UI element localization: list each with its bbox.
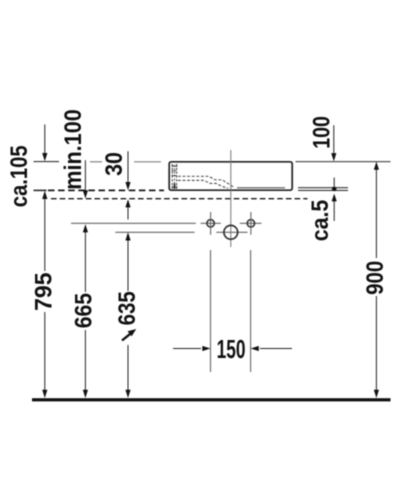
tap hole centerline A <box>71 222 196 224</box>
rim top reference line <box>34 161 391 163</box>
svg-text:ca.105: ca.105 <box>5 145 32 207</box>
635 leader arrow <box>122 333 131 340</box>
dim 635 line <box>127 240 129 391</box>
mounting level dashed line <box>34 189 165 191</box>
dim ca.105 upper arrow <box>44 125 46 155</box>
drain centerline B <box>115 231 194 233</box>
basin side view <box>169 162 292 190</box>
svg-text:ca.5: ca.5 <box>306 199 334 241</box>
svg-text:min.100: min.100 <box>59 109 87 189</box>
ca.5 dot <box>332 187 337 192</box>
floor line <box>32 398 391 401</box>
dimension labels <box>5 109 388 363</box>
drain hole <box>224 225 238 239</box>
wall dashed line <box>51 198 308 200</box>
dim 665 line <box>84 232 86 391</box>
centerline <box>230 150 232 247</box>
tap hole right <box>247 212 254 235</box>
dim 150 extension lines <box>210 250 212 372</box>
dim 795 line <box>44 199 46 391</box>
svg-text:795: 795 <box>30 273 58 311</box>
basin inner bottom line <box>237 187 285 189</box>
dim min.100 line <box>84 160 86 191</box>
dim 30 arrows <box>127 151 129 182</box>
dim 900 line <box>375 170 377 391</box>
svg-text:100: 100 <box>307 116 335 149</box>
ca.5 gap lines <box>298 188 348 191</box>
basin hidden lines <box>172 164 235 189</box>
tap hole left <box>207 212 214 235</box>
ca.5 arrows <box>333 178 335 222</box>
svg-text:30: 30 <box>99 152 127 176</box>
dim 100 arrow <box>333 125 335 154</box>
svg-text:665: 665 <box>69 293 97 329</box>
svg-text:150: 150 <box>217 334 246 363</box>
svg-text:635: 635 <box>113 291 140 325</box>
dim 150 arrows <box>173 348 201 350</box>
svg-text:900: 900 <box>361 261 388 295</box>
